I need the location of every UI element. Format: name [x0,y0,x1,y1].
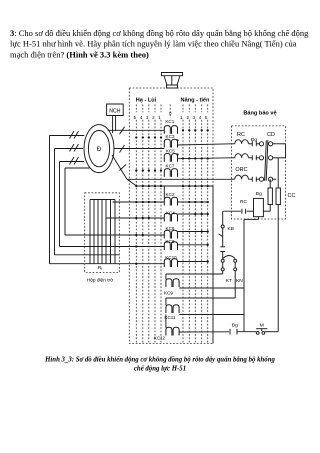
svg-text:KC3: KC3 [166,134,175,139]
svg-text:Hộp điện trở: Hộp điện trở [87,277,114,284]
svg-text:KC8: KC8 [166,239,175,244]
svg-text:RC: RC [240,199,247,205]
svg-text:3: 3 [146,115,149,120]
svg-text:CD: CD [267,132,275,138]
svg-text:RC: RC [237,132,245,138]
svg-text:Đ: Đ [97,147,102,153]
svg-text:Hạ - Lùi: Hạ - Lùi [136,97,157,103]
svg-text:chế động lực H-51: chế động lực H-51 [134,366,186,373]
svg-text:KN: KN [236,278,243,284]
svg-text:KC4: KC4 [166,210,175,215]
svg-text:KC12: KC12 [154,336,166,341]
svg-text:Bảng bảo vệ: Bảng bảo vệ [243,111,276,117]
svg-text:lực H-51 như hình vẽ. Hãy phân: lực H-51 như hình vẽ. Hãy phân tích nguy… [10,39,297,49]
svg-text:KC1: KC1 [165,119,174,124]
svg-text:Đg: Đg [232,322,238,328]
svg-text:3: Cho sơ đồ điều khiển động c: 3: Cho sơ đồ điều khiển động cơ không đồ… [10,28,309,38]
svg-text:KC10: KC10 [165,255,177,260]
svg-text:ORC: ORC [235,167,247,173]
svg-text:1: 1 [180,115,183,120]
svg-text:2: 2 [186,115,189,120]
svg-text:1: 1 [158,115,161,120]
svg-text:KC9: KC9 [164,291,173,296]
svg-text:4: 4 [140,115,143,120]
svg-text:Rf: Rf [98,265,102,271]
svg-text:KB: KB [228,226,234,232]
svg-text:KC7: KC7 [166,164,175,169]
svg-text:0: 0 [169,111,172,116]
svg-text:Nâng - tiến: Nâng - tiến [181,96,210,103]
svg-text:Đg: Đg [251,137,257,143]
svg-text:3: 3 [192,115,195,120]
svg-text:KC5: KC5 [166,149,175,154]
svg-text:5: 5 [205,115,208,120]
svg-text:KC2: KC2 [166,192,175,197]
svg-text:KC11: KC11 [164,315,176,320]
svg-text:NCH: NCH [109,108,120,114]
svg-text:2: 2 [152,115,155,120]
svg-text:KC6: KC6 [166,226,175,231]
svg-text:KT: KT [226,278,232,284]
svg-text:mạch điện trên? (Hình vẽ 3.3 k: mạch điện trên? (Hình vẽ 3.3 kèm theo) [10,49,149,59]
svg-text:CC: CC [288,193,296,199]
svg-text:M: M [260,323,264,329]
svg-text:Đg: Đg [256,191,262,197]
svg-text:4: 4 [199,115,202,120]
svg-text:5: 5 [133,115,136,120]
svg-text:Hình 3_3: Sơ đồ điều khiển độn: Hình 3_3: Sơ đồ điều khiển động cơ không… [44,357,275,364]
